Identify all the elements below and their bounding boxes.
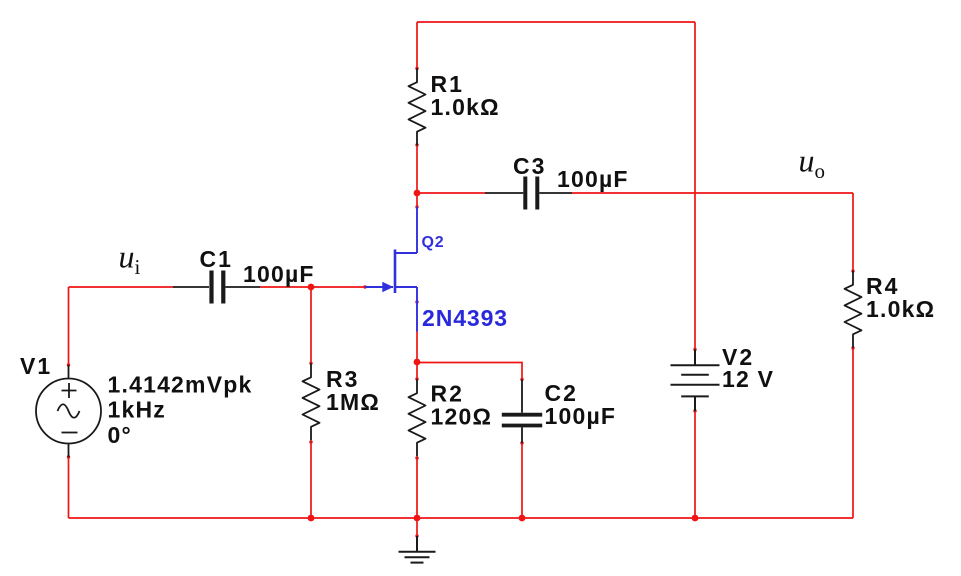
svg-text:1kHz: 1kHz — [108, 397, 167, 423]
svg-text:100µF: 100µF — [243, 261, 315, 287]
svg-text:12 V: 12 V — [722, 366, 774, 392]
wire R3 top drop — [310, 287, 312, 363]
capacitor C3 — [485, 177, 572, 210]
pin V1 bottom — [67, 455, 70, 458]
capacitor C1 — [173, 271, 260, 304]
wire input left segment — [69, 286, 174, 288]
pin R3 bottom — [309, 440, 312, 443]
wire R4 bottom drop — [852, 348, 854, 518]
node drain junction — [414, 190, 421, 197]
pin R4 top — [851, 269, 854, 272]
pin V1 top — [67, 363, 70, 366]
source V1 (AC) — [36, 365, 101, 457]
svg-text:0°: 0° — [108, 422, 132, 448]
resistor R1 — [409, 68, 426, 145]
svg-text:2N4393: 2N4393 — [422, 305, 508, 331]
pin R3 top — [309, 362, 312, 365]
pin R2 bottom — [415, 456, 418, 459]
wire R1 bottom to drain node — [416, 145, 418, 193]
svg-text:uo: uo — [799, 143, 826, 184]
wire V2 top drop — [694, 22, 696, 350]
pin C2 top — [520, 378, 523, 381]
pin R1 top — [415, 67, 418, 70]
pin V2 top — [693, 348, 696, 351]
V2 plate short bottom — [681, 395, 709, 397]
wire C1 to gate — [260, 286, 365, 288]
ground — [399, 536, 436, 563]
drain lead — [395, 207, 417, 253]
resistor R3 — [303, 363, 320, 440]
svg-text:120Ω: 120Ω — [431, 404, 493, 430]
pin C2 bottom — [520, 441, 523, 444]
V2 plate long bottom — [671, 384, 720, 386]
V1 sine wave — [58, 404, 80, 418]
svg-text:100µF: 100µF — [545, 403, 617, 429]
svg-text:Q2: Q2 — [422, 234, 445, 251]
wire R3 bottom drop — [310, 442, 312, 518]
gate lead — [365, 286, 393, 288]
svg-text:1.4142mVpk: 1.4142mVpk — [108, 372, 253, 398]
wire drain stub — [416, 193, 418, 207]
pin R4 bottom — [851, 346, 854, 349]
wire C2 bottom drop — [521, 443, 523, 518]
svg-text:1.0kΩ: 1.0kΩ — [866, 296, 935, 322]
wire source node to R2 — [416, 362, 418, 379]
node source junction — [414, 359, 421, 366]
wire V1 top drop — [68, 287, 70, 365]
transistor Q2 (2N4393 N-JFET) — [365, 207, 417, 332]
V1 bottom lead — [68, 444, 70, 458]
svg-text:1MΩ: 1MΩ — [326, 389, 380, 415]
wire source stub — [416, 332, 418, 363]
pin R2 top — [415, 377, 418, 380]
resistor R4 — [845, 271, 862, 348]
capacitor C2 — [502, 380, 542, 444]
svg-text:1.0kΩ: 1.0kΩ — [431, 94, 500, 120]
pin ground top — [415, 534, 418, 537]
V1 top lead — [68, 365, 70, 379]
V2 plate long top — [671, 364, 720, 366]
resistor R2 — [409, 379, 426, 456]
wire V1 bottom drop — [68, 457, 70, 518]
V2 bottom lead — [694, 396, 696, 411]
pin source — [415, 300, 418, 303]
wire V2 bottom drop — [694, 411, 696, 518]
wire R2 bottom drop — [416, 458, 418, 518]
node bottom C2 junction — [519, 515, 526, 522]
pin V2 bottom — [693, 409, 696, 412]
svg-text:C3: C3 — [513, 153, 546, 179]
wire ground stub — [416, 518, 418, 536]
source lead — [395, 287, 417, 332]
pin drain — [415, 205, 418, 208]
node bottom ground junction — [414, 515, 421, 522]
node bottom V2 junction — [692, 515, 699, 522]
svg-text:100µF: 100µF — [557, 166, 629, 192]
V1 plus sign — [62, 383, 77, 398]
svg-text:ui: ui — [119, 239, 141, 280]
node bottom R3 junction — [308, 515, 315, 522]
svg-text:C1: C1 — [200, 246, 233, 272]
node input/R3 junction — [308, 284, 315, 291]
wire output drop to R4 — [852, 193, 854, 271]
channel — [394, 250, 397, 294]
svg-text:V1: V1 — [20, 353, 52, 379]
V1 minus sign — [62, 432, 78, 434]
pin gate — [363, 285, 366, 288]
pin R1 bottom — [415, 143, 418, 146]
wire bottom rail — [69, 517, 854, 519]
wire node drain to C3 — [417, 192, 485, 194]
V2 top lead — [694, 350, 696, 366]
wire top rail VDD — [417, 21, 695, 23]
wire C3 to output corner — [572, 192, 853, 194]
V1 circle — [36, 379, 101, 444]
V2 plate short — [681, 374, 709, 376]
source V2 (12V battery) — [671, 350, 720, 412]
wire source node to C2 — [417, 363, 522, 380]
wire R1 top drop — [416, 22, 418, 69]
transistor gate arrow — [382, 282, 393, 292]
